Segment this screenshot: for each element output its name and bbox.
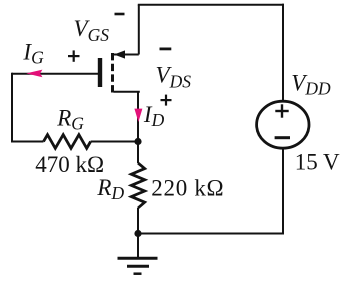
source lead bbox=[114, 91, 140, 93]
wire right vertical upper bbox=[282, 4, 284, 102]
channel dashed bbox=[111, 53, 114, 93]
V_GS minus sign bbox=[115, 13, 125, 16]
V_GS plus sign bbox=[68, 50, 80, 61]
ground bbox=[118, 258, 158, 273]
voltage source VDD bbox=[257, 101, 309, 148]
node A (R_G / R_D / source junction) bbox=[134, 138, 141, 145]
wire drain vertical up bbox=[138, 5, 140, 55]
svg-text:15 V: 15 V bbox=[295, 150, 340, 175]
wire left vertical bbox=[11, 73, 13, 143]
node B (bottom junction) bbox=[134, 230, 141, 237]
wire source vertical bbox=[137, 92, 139, 163]
drain lead with arrowhead bbox=[114, 54, 139, 56]
wire right vertical lower bbox=[282, 148, 284, 235]
resistor R_D bbox=[131, 163, 144, 257]
current arrow I_D bbox=[134, 109, 142, 122]
transistor Q1 bbox=[98, 50, 140, 92]
gate bar bbox=[98, 58, 102, 87]
current arrow I_G bbox=[26, 70, 42, 78]
wire top horizontal bbox=[138, 4, 284, 6]
svg-text:220 kΩ: 220 kΩ bbox=[151, 175, 224, 200]
wire gate horizontal bbox=[12, 73, 98, 75]
svg-text:470 kΩ: 470 kΩ bbox=[35, 152, 104, 177]
wire bottom horizontal bbox=[138, 233, 284, 235]
resistor R_G bbox=[12, 135, 138, 149]
V_DS minus sign bbox=[160, 48, 172, 51]
V_DS plus sign bbox=[161, 95, 172, 106]
